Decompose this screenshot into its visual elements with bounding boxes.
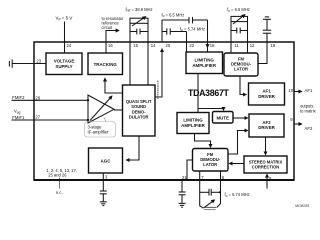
wire FMIF1 input	[12, 119, 89, 121]
svg-text:AMPLIFIER: AMPLIFIER	[192, 63, 216, 68]
wire pin 15 riser	[129, 23, 131, 42]
box stereo matrix correction	[244, 156, 287, 173]
svg-text:22: 22	[189, 43, 194, 48]
capacitor C7 on pin 3	[100, 191, 107, 202]
svg-text:DRIVER: DRIVER	[258, 125, 275, 130]
ground pin 19 cap	[263, 17, 271, 19]
capacitor C8 on pin 21	[179, 192, 186, 203]
svg-text:MGB381: MGB381	[295, 204, 310, 208]
svg-text:fo = 6.5 MHz: fo = 6.5 MHz	[162, 12, 185, 18]
wire Vp to pin 24 into voltage supply	[64, 22, 66, 54]
box FM demodulator 1	[224, 53, 258, 76]
svg-text:20: 20	[166, 43, 171, 48]
svg-text:TRACKING: TRACKING	[94, 62, 118, 67]
wire 5.74 MHz branch to pin 22	[162, 31, 167, 33]
wire AF2 driver to stereo matrix correction	[265, 137, 267, 155]
wire pin 22 drop	[186, 32, 188, 53]
svg-text:25 and 26: 25 and 26	[48, 172, 67, 177]
svg-text:IF-amplifier: IF-amplifier	[88, 130, 110, 135]
box AGC	[89, 148, 123, 173]
svg-text:24: 24	[67, 43, 72, 48]
junction FMIF1 at amplifier	[87, 119, 89, 121]
junction FMIF2 at amplifier	[87, 99, 89, 101]
wire limiting amplifier 1 to FM demodulator 1	[223, 63, 225, 65]
wire pin 20 riser	[161, 20, 163, 42]
svg-text:DULATOR: DULATOR	[129, 115, 149, 120]
wire QSS demodulator to tracking	[105, 78, 123, 93]
svg-text:LATOR: LATOR	[234, 66, 248, 71]
wire pin 14 riser	[147, 23, 149, 42]
wire pin 14 to QSS demodulator	[147, 42, 149, 85]
svg-text:AF2: AF2	[305, 126, 313, 131]
wire FM demodulator 1 to AF1 driver	[240, 76, 246, 95]
svg-text:MUTE: MUTE	[216, 115, 229, 120]
svg-text:AMPLIFIER: AMPLIFIER	[181, 123, 205, 128]
capacitor C4 parallel with X2	[231, 28, 248, 34]
wire AGC to pin 3	[102, 173, 104, 180]
svg-text:CORRECTION: CORRECTION	[252, 165, 280, 170]
capacitor C9 between pins 7-6	[200, 189, 221, 196]
crystal X1 (pins 15-14)	[130, 17, 148, 26]
wire pin 18 drop into limiting amplifier 1	[207, 20, 209, 48]
svg-text:n.c.: n.c.	[56, 190, 63, 195]
wire mute to AF2 driver	[233, 117, 248, 119]
wire FMIF2 input	[12, 99, 89, 101]
wire pin 16 to tracking	[105, 42, 107, 53]
wire QSS demodulator to AGC	[126, 136, 139, 160]
wire limiting amplifier 2 to FM demodulator 2	[195, 134, 211, 148]
coil L1 (5.74 MHz resonator)	[203, 200, 217, 210]
svg-text:FMIF1: FMIF1	[12, 115, 25, 120]
wire pin 6 into FM demodulator 2	[220, 171, 222, 180]
box FM demodulator 2	[193, 149, 229, 172]
svg-text:23: 23	[36, 59, 41, 64]
wire pin 21 external	[181, 180, 183, 192]
ground pin 3 cap	[100, 202, 107, 206]
box AF1 driver	[249, 83, 285, 105]
wire pin 15 to QSS demodulator	[129, 42, 131, 85]
svg-text:fo = 5.74 MHz: fo = 5.74 MHz	[225, 192, 250, 198]
chip outline TDA3867T	[34, 42, 294, 180]
wire pin 23 decoupling	[12, 63, 46, 65]
svg-text:AGC: AGC	[101, 158, 112, 163]
wire QSS demodulator to pin 20 (reference)	[155, 49, 162, 97]
op-amp 3-stage IF-amplifier	[88, 95, 114, 123]
svg-text:15: 15	[133, 43, 138, 48]
capacitor C5 on pin 19	[263, 19, 271, 42]
box AF2 driver	[249, 114, 284, 137]
box limiting amplifier 1	[186, 52, 223, 74]
wire pin 11 into FM demodulator 1	[230, 42, 232, 53]
wire AF1 output	[294, 91, 302, 93]
box limiting amplifier 2	[177, 113, 209, 134]
svg-text:fo = 6.5 MHz: fo = 6.5 MHz	[227, 7, 250, 13]
wire 6.5 MHz branch to pin 18	[162, 19, 189, 21]
svg-text:18: 18	[210, 43, 215, 48]
callout label 3-stage IF-amplifier	[85, 118, 116, 138]
capacitor C2 (6.5 MHz)	[189, 17, 193, 23]
svg-text:19: 19	[271, 43, 276, 48]
svg-text:14: 14	[151, 43, 156, 48]
wire pin 21 to FM demodulator 2	[187, 160, 193, 180]
svg-text:16: 16	[108, 43, 113, 48]
box mute	[213, 112, 234, 124]
svg-text:fref = 38.9 MHz: fref = 38.9 MHz	[126, 7, 153, 13]
wire FM demodulator 2 to AF2 driver	[228, 131, 248, 155]
svg-text:circuit: circuit	[102, 25, 114, 30]
wire amplifier to QSS demodulator	[114, 109, 123, 111]
box quasi split sound demodulator	[123, 85, 156, 136]
wire pin 7 into FM demodulator 2	[199, 171, 201, 180]
svg-text:12: 12	[250, 43, 255, 48]
wire AF2 output	[294, 123, 302, 125]
wire stereo matrix correction to FM demodulator 2	[229, 163, 244, 165]
capacitor C1 parallel with X1	[130, 29, 148, 35]
wire pin 8 into stereo matrix correction	[266, 174, 268, 188]
svg-text:FMIF2: FMIF2	[12, 95, 25, 100]
svg-text:SUPPLY: SUPPLY	[55, 64, 72, 69]
capacitor C6 on pin 23	[9, 60, 12, 68]
svg-text:TDA3867T: TDA3867T	[188, 88, 230, 98]
wire pin 11 riser	[230, 22, 232, 42]
box voltage supply	[46, 53, 82, 75]
wire pin 3 external	[102, 180, 104, 191]
svg-text:reference: reference	[155, 80, 160, 99]
chip outline bottom edge emphasis	[34, 179, 294, 181]
svg-text:10: 10	[288, 88, 293, 93]
wire pin 16 to resonator arrow	[106, 31, 119, 43]
svg-text:11: 11	[234, 43, 239, 48]
ground pin 21 cap	[179, 203, 186, 207]
svg-text:27: 27	[35, 115, 40, 120]
svg-text:AF1: AF1	[305, 88, 313, 93]
svg-text:DRIVER: DRIVER	[258, 94, 275, 99]
wire limiting amplifier 1 to mute and limiting amplifier 2	[197, 74, 199, 113]
svg-text:28: 28	[35, 95, 40, 100]
wire pin 12 riser	[247, 22, 249, 42]
capacitor C3 (5.74 MHz)	[167, 28, 170, 34]
wire pins 7-6 resonator loop	[200, 180, 204, 208]
crystal X2 (pins 11-12)	[231, 15, 248, 24]
wire pin 19 to FM demodulator 1 output	[258, 42, 267, 64]
box tracking	[88, 53, 123, 75]
svg-text:LATOR: LATOR	[203, 162, 217, 167]
svg-text:to matrix: to matrix	[300, 108, 316, 113]
wire pin 12 into FM demodulator 1	[247, 42, 249, 53]
